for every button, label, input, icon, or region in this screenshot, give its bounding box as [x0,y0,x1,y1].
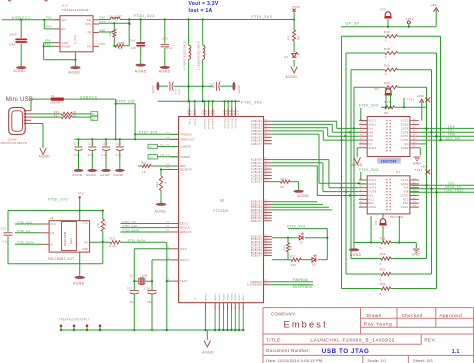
svg-text:OSCI: OSCI [180,247,188,251]
svg-text:0: 0 [385,55,387,59]
svg-text:FTDI_3V3: FTDI_3V3 [139,130,157,134]
svg-text:FTDI_CLK: FTDI_CLK [17,220,32,224]
svg-text:FTDI_3V3: FTDI_3V3 [134,14,155,18]
svg-text:AGND: AGND [135,69,147,73]
svg-text:GND: GND [412,252,421,256]
svg-text:JP2: JP2 [375,220,378,225]
svg-text:GND2: GND2 [401,147,409,150]
svg-text:OUTA: OUTA [401,127,409,130]
svg-text:Q1: Q1 [130,274,134,278]
svg-text:FTDI_3V3: FTDI_3V3 [241,100,262,104]
svg-text:FTDI_CLK: FTDI_CLK [123,224,138,228]
svg-text:R18: R18 [384,47,390,51]
svg-text:D+: D+ [150,155,154,159]
svg-text:GND6: GND6 [235,293,237,301]
svg-text:USBVCC: USBVCC [80,95,98,99]
svg-text:PWREN#: PWREN# [293,278,308,282]
svg-text:IND: IND [369,139,374,142]
svg-text:EECLK: EECLK [180,226,190,230]
svg-text:GND2: GND2 [369,206,377,209]
svg-text:REF: REF [180,164,186,168]
svg-text:GND: GND [62,41,69,45]
svg-text:93LC56M: 93LC56M [63,231,67,246]
svg-text:U5: U5 [384,111,388,115]
svg-text:R24: R24 [157,181,159,187]
svg-text:OUTA: OUTA [369,187,377,190]
svg-text:0.1u: 0.1u [88,154,94,157]
svg-text:AGND: AGND [285,75,297,79]
svg-text:VPHY: VPHY [195,118,197,125]
svg-text:2M: 2M [109,32,112,36]
svg-text:VCORE2: VCORE2 [209,118,211,129]
svg-text:22uF: 22uF [129,38,137,42]
svg-text:C45: C45 [130,46,136,50]
svg-text:4.7u: 4.7u [175,88,178,94]
svg-text:GND1: GND1 [401,183,409,186]
svg-text:D-: D- [92,112,95,116]
svg-text:R40: R40 [298,34,300,40]
svg-text:PGND: PGND [62,44,71,48]
svg-text:Embest: Embest [284,320,328,330]
svg-text:C10: C10 [178,89,181,95]
svg-text:VOS: VOS [85,22,91,26]
svg-text:5K: 5K [280,185,284,189]
svg-text:VREGOUT: VREGOUT [180,138,195,142]
svg-text:AGND: AGND [352,163,363,167]
svg-text:EEDATA: EEDATA [180,230,192,234]
svg-text:500mA: 500mA [50,100,60,104]
svg-text:P53: P53 [46,25,52,29]
svg-text:EECS: EECS [180,222,188,226]
svg-text:TITLE:: TITLE: [266,338,282,343]
svg-text:D-: D- [150,145,153,149]
svg-text:+3V3: +3V3 [417,94,425,98]
svg-text:Drawn: Drawn [367,313,382,318]
svg-text:C43: C43 [162,37,168,41]
svg-text:GND2: GND2 [219,293,221,301]
svg-text:0.1u: 0.1u [102,154,108,157]
svg-text:VCC2: VCC2 [401,120,409,123]
svg-text:VCCIO2: VCCIO2 [228,118,230,128]
svg-text:FTDI_3V3: FTDI_3V3 [48,198,68,202]
svg-text:R23: R23 [280,177,286,181]
svg-text:M8C8SV128-88C8*D: M8C8SV128-88C8*D [1,143,28,145]
svg-text:R25: R25 [380,236,386,240]
svg-text:VCC2: VCC2 [369,179,377,182]
svg-text:GND2: GND2 [401,124,409,127]
svg-text:NC: NC [369,143,373,146]
svg-text:OUTD: OUTD [401,139,409,142]
svg-text:DO: DO [84,241,88,244]
svg-text:NC2: NC2 [369,198,375,201]
svg-text:P52: P52 [46,16,52,20]
svg-text:1.1: 1.1 [452,349,460,355]
svg-text:INC: INC [369,135,374,138]
svg-text:Checked: Checked [402,313,423,318]
svg-text:0.1u: 0.1u [74,154,80,157]
svg-text:L1 BLM15AG601SN1D: L1 BLM15AG601SN1D [198,41,201,70]
svg-text:EN: EN [62,27,66,31]
svg-text:AGND: AGND [297,194,309,198]
svg-text:FT2232H: FT2232H [213,209,229,213]
svg-text:USB TO JTAG: USB TO JTAG [322,348,370,355]
svg-text:0: 0 [385,72,387,76]
svg-text:R26: R26 [284,245,286,250]
svg-text:F1: F1 [51,94,55,98]
svg-text:C18: C18 [145,287,151,291]
svg-text:R22: R22 [141,161,147,165]
svg-text:USBDP: USBDP [180,155,190,159]
svg-text:AGND: AGND [114,173,125,177]
svg-text:TEST: TEST [180,279,188,283]
svg-text:OUTC: OUTC [401,135,409,138]
svg-text:R17: R17 [54,114,60,117]
svg-text:TP14TP15TP16TP17: TP14TP15TP16TP17 [59,318,90,322]
svg-text:JP3: JP3 [380,7,386,11]
svg-text:TP30: TP30 [292,5,300,9]
svg-text:OUTB: OUTB [401,131,409,134]
svg-text:VPLL: VPLL [189,118,191,125]
svg-text:BCBUS7: BCBUS7 [251,255,263,258]
svg-text:PG: PG [87,44,91,48]
svg-text:Document Number:: Document Number: [266,348,310,353]
svg-text:FTDI_DATA: FTDI_DATA [17,241,34,245]
svg-text:C13: C13 [88,141,94,145]
svg-text:R30: R30 [380,268,386,272]
svg-text:VCCIO3: VCCIO3 [232,118,234,128]
svg-text:R31: R31 [110,237,116,241]
svg-text:Date: 10/10/2014 9:08:15 PM: Date: 10/10/2014 9:08:15 PM [266,358,322,363]
svg-text:INB: INB [404,191,409,194]
svg-text:330: 330 [291,263,296,267]
svg-text:R32: R32 [380,282,386,286]
svg-text:+5V: +5V [431,3,437,7]
svg-text:12M: 12M [142,274,148,278]
svg-text:AGND: AGND [72,173,83,177]
svg-text:VCC: VCC [82,222,88,225]
svg-text:AGND: AGND [73,282,85,286]
svg-text:0: 0 [380,292,382,296]
svg-text:NC1: NC1 [403,198,409,201]
svg-text:4.7u: 4.7u [213,82,216,88]
svg-text:FTDI_3V3: FTDI_3V3 [359,104,379,108]
svg-text:RESET#: RESET# [180,168,192,172]
svg-text:CON6: CON6 [8,137,17,141]
svg-text:U8: U8 [49,216,53,220]
svg-text:330: 330 [291,245,293,250]
svg-text:C17: C17 [127,287,133,291]
svg-text:+3V3: +3V3 [421,166,428,169]
svg-text:U7: U7 [396,170,400,174]
svg-text:VREGIN: VREGIN [180,133,192,137]
svg-text:AGND: AGND [100,173,111,177]
svg-text:TP10: TP10 [406,17,414,21]
svg-text:D+: D+ [92,117,96,121]
svg-text:R47: R47 [118,46,124,50]
svg-text:GND4: GND4 [227,293,229,301]
svg-text:GND1: GND1 [215,293,217,301]
svg-text:C44: C44 [9,42,15,46]
svg-text:P54: P54 [45,38,51,42]
svg-text:ACBUS7: ACBUS7 [251,181,263,184]
svg-text:USBDM: USBDM [180,145,191,149]
svg-text:FTDI_DATA: FTDI_DATA [123,228,140,232]
svg-text:P58: P58 [160,155,165,157]
svg-text:GND5: GND5 [231,293,233,301]
svg-text:VCCIO1: VCCIO1 [225,118,227,128]
svg-text:LAUNCHXL-F28069_B_1400922: LAUNCHXL-F28069_B_1400922 [310,338,394,344]
svg-text:DI: DI [50,243,53,246]
svg-text:Approved: Approved [439,313,462,318]
svg-text:Roy Yaung: Roy Yaung [364,322,393,327]
svg-text:FTDI_3V3: FTDI_3V3 [252,15,273,19]
svg-text:U17: U17 [62,4,68,8]
svg-text:10uF: 10uF [9,32,17,36]
svg-text:D7: D7 [300,241,304,245]
svg-text:93LC56BT-I/OT: 93LC56BT-I/OT [48,257,74,261]
svg-text:Iout = 1A: Iout = 1A [189,8,213,14]
svg-text:620: 620 [288,35,290,40]
svg-text:SUSPEND#: SUSPEND# [247,284,263,287]
svg-text:R16: R16 [384,30,390,34]
svg-text:AGND: AGND [86,173,97,177]
svg-text:VIN: VIN [62,18,67,22]
svg-text:Scale: 1/1: Scale: 1/1 [367,358,386,363]
svg-text:COMPANY:: COMPANY: [271,312,297,317]
svg-text:GND: GND [82,248,88,251]
svg-text:0: 0 [380,262,382,266]
svg-text:AGND: AGND [159,69,171,73]
svg-text:EN1: EN1 [403,202,409,205]
svg-text:AGND: AGND [39,155,51,159]
svg-text:FB: FB [88,31,92,35]
svg-text:VCORE3: VCORE3 [213,118,215,129]
svg-text:P51: P51 [160,145,165,147]
svg-text:D8: D8 [312,263,316,267]
svg-text:FTDI_3V3: FTDI_3V3 [287,224,305,228]
svg-text:SW: SW [87,18,92,22]
svg-text:2.2k: 2.2k [110,244,117,248]
svg-text:OUTC: OUTC [401,195,409,198]
svg-text:R21: R21 [384,100,390,104]
svg-text:L3 4.7uH: L3 4.7uH [110,15,122,18]
svg-text:C12: C12 [74,141,80,145]
svg-text:Mini USB: Mini USB [6,97,33,103]
svg-text:0: 0 [385,39,387,43]
svg-text:AGND: AGND [152,85,155,93]
svg-text:OUTB: OUTB [369,191,377,194]
svg-text:10K: 10K [98,223,100,228]
svg-text:EN2: EN2 [369,202,375,205]
svg-text:CS: CS [50,232,54,235]
svg-text:GND7: GND7 [239,293,241,301]
svg-text:SUSPEND#: SUSPEND# [293,285,313,289]
svg-text:AGND: AGND [155,209,167,213]
svg-text:CLK: CLK [50,223,56,226]
svg-text:GND3: GND3 [223,293,225,301]
svg-text:R19: R19 [384,64,390,68]
svg-text:ISO7240: ISO7240 [381,160,396,164]
svg-text:R29: R29 [380,252,386,256]
svg-text:P59: P59 [100,42,106,46]
svg-text:C15: C15 [116,141,122,145]
svg-text:INA: INA [369,127,374,130]
svg-text:VCORE1: VCORE1 [204,118,206,129]
svg-text:AGND: AGND [204,293,207,301]
svg-text:AGND: AGND [202,351,214,355]
svg-text:GND1: GND1 [369,124,377,127]
svg-text:INA: INA [404,187,409,190]
svg-text:R12: R12 [106,220,108,226]
svg-text:Vout = 3.3V: Vout = 3.3V [189,1,219,7]
svg-text:AGND: AGND [238,85,241,93]
svg-text:P48: P48 [211,114,216,116]
svg-text:FTDI_CS: FTDI_CS [123,220,136,224]
svg-text:3.3u: 3.3u [115,154,121,157]
svg-text:INC: INC [369,195,374,198]
svg-text:VCC1: VCC1 [401,179,409,182]
svg-text:USBVCC: USBVCC [12,16,32,20]
svg-text:C16: C16 [1,226,7,230]
svg-text:Atxx: Atxx [69,237,73,244]
svg-text:UP_5V: UP_5V [346,22,360,26]
svg-text:0.1u: 0.1u [2,239,9,243]
svg-text:FTDI_1V8: FTDI_1V8 [116,100,134,104]
svg-text:TX: TX [195,297,197,301]
svg-text:EN: EN [405,143,409,146]
svg-text:U6: U6 [220,199,225,203]
svg-text:100K: 100K [117,41,124,45]
svg-text:AGND: AGND [69,71,81,75]
svg-text:BDBUS7: BDBUS7 [251,220,263,223]
svg-text:FTDI_CS: FTDI_CS [17,229,30,233]
svg-text:ADBUS7: ADBUS7 [251,143,263,146]
svg-text:C14: C14 [102,141,108,145]
svg-text:INB: INB [369,131,374,134]
svg-text:R20: R20 [384,81,390,85]
svg-text:TP12: TP12 [407,97,415,101]
svg-text:R27: R27 [290,254,296,258]
svg-text:Sheet: 2/3: Sheet: 2/3 [413,358,433,363]
svg-text:GND1: GND1 [369,147,377,150]
svg-text:1K: 1K [142,170,146,174]
svg-text:REV:: REV: [424,338,436,343]
svg-text:GND2: GND2 [369,183,377,186]
svg-text:L2 BLM15AG601SN1D: L2 BLM15AG601SN1D [183,41,186,70]
svg-text:VCCIO4: VCCIO4 [235,118,237,128]
svg-text:JP1: JP1 [374,87,380,91]
svg-text:0.1u: 0.1u [166,46,173,50]
svg-text:OSCO: OSCO [180,258,189,262]
svg-text:AGND: AGND [14,69,26,73]
svg-text:0: 0 [380,277,382,281]
svg-text:AGND: AGND [350,253,362,257]
svg-text:FTDI_3V3: FTDI_3V3 [359,168,379,172]
svg-text:TJAG_TRST: TJAG_TRST [444,189,464,193]
svg-text:TPS62162DSGR: TPS62162DSGR [62,8,89,12]
svg-text:SCL_RX: SCL_RX [446,137,461,141]
svg-text:D4: D4 [285,56,289,59]
svg-text:0R: 0R [73,114,77,117]
svg-text:P42: P42 [192,114,197,116]
svg-text:GND1: GND1 [401,206,409,209]
svg-text:ISO7231: ISO7231 [390,215,404,219]
svg-text:E_PAD: E_PAD [74,35,77,44]
svg-text:FTDI_DATA: FTDI_DATA [128,239,146,243]
svg-text:GND: GND [243,295,245,301]
svg-text:0: 0 [380,246,382,250]
svg-text:VCC1: VCC1 [369,120,377,123]
svg-text:TP11: TP11 [78,192,85,196]
